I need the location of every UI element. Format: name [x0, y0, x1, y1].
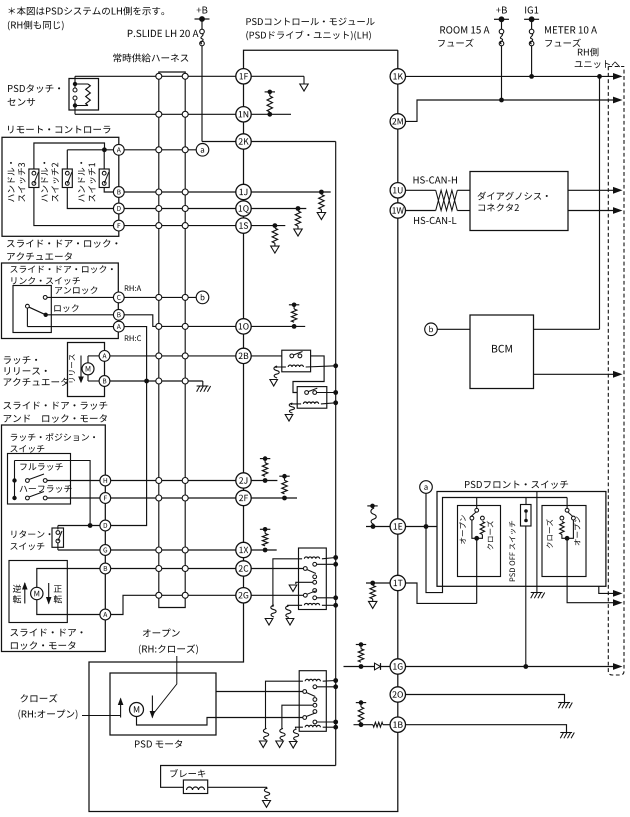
wire switch3 bottom to row F: [34, 188, 114, 226]
relay 1 transistor to ground: [276, 367, 282, 368]
wire close label to motor: [82, 715, 121, 717]
harness bus verticals: [159, 72, 185, 76]
motor relay contact 1: [313, 685, 317, 689]
wire row A link: [27, 326, 113, 328]
wire motor lower to relay: [137, 717, 304, 726]
coil 1 transistor to ground: [271, 605, 276, 617]
wire row G: [58, 549, 100, 551]
label close LH rotated: [487, 521, 494, 550]
motor relay coil1 transistor ground: [263, 729, 268, 741]
module pin 1W: [390, 203, 405, 218]
RH switch contacts: [565, 508, 569, 512]
terminal C RH:A: [113, 292, 124, 303]
lock link switch contacts: [43, 296, 47, 300]
terminal A latch motor: [100, 609, 111, 620]
note text top-left: [9, 7, 165, 16]
dashed box to RH side unit: [608, 67, 624, 676]
terminal A RH:C: [113, 321, 124, 332]
module pin 1E: [390, 519, 405, 534]
module pin 2B: [236, 348, 251, 363]
wire net a routing: [426, 493, 567, 592]
remote controller label: [8, 126, 110, 134]
wire row 1G to RH arrow: [406, 666, 614, 668]
wire row 1B to ground: [406, 725, 567, 732]
lock link switch box: [13, 286, 51, 333]
wire relay1 contact to relay2: [293, 356, 324, 393]
resistor at 1T: [370, 585, 375, 599]
wire switch2 top to row A: [66, 150, 68, 169]
contact middle to ground arrow: [313, 580, 317, 584]
motor open arrow down: [151, 696, 153, 718]
handle switch 2: [62, 169, 72, 188]
label constant supply harness: [113, 53, 188, 62]
return switch: [57, 526, 59, 530]
resistor at 1O: [252, 325, 306, 327]
reverse arrow up: [24, 583, 26, 604]
ground latch release: [202, 381, 204, 386]
net b: [196, 291, 209, 304]
BCM output up: [534, 328, 600, 330]
touch sensor resistor: [75, 83, 88, 85]
module pin 1F: [236, 69, 251, 84]
module pin 1J: [236, 184, 251, 199]
label half latch: [20, 485, 72, 493]
module pin 2M: [390, 114, 405, 129]
module pin 2J: [236, 473, 251, 488]
coil 2 transistor to ground: [286, 606, 291, 618]
BCM output to RH arrow: [534, 373, 615, 375]
label open RH rotated: [574, 517, 581, 546]
module pin 1T: [390, 575, 405, 590]
label open LH rotated: [459, 515, 466, 544]
door lock relay 1 box: [282, 350, 311, 372]
wire 2B to relay: [252, 355, 282, 357]
wire row B to 2C: [111, 568, 236, 570]
motor relay contact 2: [313, 710, 317, 714]
handle switch 2 label: [41, 162, 48, 202]
wire row 1F: [75, 75, 236, 77]
resistor at 1N: [252, 113, 292, 115]
PSD touch sensor: [69, 79, 99, 111]
latch release actuator box: [68, 343, 105, 397]
wire terminal D to link net: [111, 381, 147, 526]
wire row H: [47, 480, 100, 482]
wire terminal A to row 2G: [111, 595, 236, 614]
lock motor M: [31, 587, 43, 599]
resistor at 1X: [252, 549, 277, 551]
wire switch2 bottom to row D: [67, 188, 113, 209]
battery +B terminal top-left: [197, 7, 208, 14]
front switch RH box: [542, 506, 586, 577]
motor relay box: [299, 671, 326, 732]
power relay coil 1: [304, 557, 319, 559]
wire row 1K to RH arrow: [406, 75, 614, 77]
PSD OFF switch box: [521, 505, 532, 527]
wire lock motor to row B: [37, 569, 100, 588]
terminal G: [100, 545, 111, 556]
module pin 1X: [236, 542, 251, 557]
module pin 1B: [390, 717, 405, 732]
PSD motor M: [130, 703, 144, 717]
terminal B lock: [113, 309, 124, 320]
wire row A to net a: [124, 149, 196, 151]
brake coil box: [183, 780, 207, 794]
RH common to RH arrow: [567, 538, 614, 602]
wire row F to 2F: [111, 497, 236, 499]
wire 1T to LH common: [366, 582, 390, 584]
wire row B to 1J: [124, 191, 235, 193]
resistor at 1G: [344, 666, 390, 668]
wire terminal B jog to 1O row: [124, 315, 235, 327]
label forward: [54, 585, 62, 592]
power relay contact 1: [313, 562, 317, 566]
lock motor box: [9, 561, 67, 623]
resistor at 2J: [252, 480, 278, 482]
diode at 1G: [375, 663, 381, 670]
wire +B down to row 2M: [501, 46, 503, 100]
wire latch B to ground: [110, 380, 203, 382]
door lock relay 2 box: [297, 387, 327, 409]
PSD OFF switch to 1G row: [525, 526, 527, 667]
latch position switch box: [8, 454, 71, 505]
motor relay coil 1: [305, 679, 320, 681]
module pin 1S: [236, 218, 251, 233]
front switch box ground: [536, 492, 538, 593]
wire row F latch: [47, 497, 100, 499]
label HS-CAN-H: [414, 176, 458, 183]
front switch box output arrow: [599, 586, 614, 593]
label HS-CAN-L: [414, 217, 456, 224]
relay 2 transistor to ground: [291, 404, 297, 405]
wire row H to 2J: [111, 480, 236, 482]
front switch LH box: [458, 506, 501, 577]
front switch outer box: [437, 492, 606, 587]
terminal F remote: [113, 220, 124, 231]
remote controller box: [2, 137, 119, 236]
wire row 1N: [75, 113, 236, 115]
wire row C unlock: [47, 296, 113, 298]
wire +B feed down to 2K: [201, 46, 203, 142]
wire latch commons: [14, 461, 16, 499]
wire net b to BCM: [437, 328, 470, 330]
LH common down: [476, 538, 478, 603]
PSD motor label: [135, 740, 182, 748]
PSD front switch label: [465, 481, 568, 489]
slide door latch and lock motor box: [2, 425, 106, 652]
wire row 2O to ground: [406, 695, 565, 703]
terminal F latch: [100, 493, 111, 504]
handle switch 3 label: [8, 162, 15, 202]
module pin 2K: [236, 134, 251, 149]
terminal A latch release: [88, 355, 99, 357]
power relay coil 2: [304, 603, 319, 605]
latch position switch label: [11, 433, 95, 441]
full latch switch: [12, 478, 16, 482]
module pin 1O: [236, 319, 251, 334]
relay 1 contact: [290, 354, 294, 358]
relay 1 coil leads: [282, 366, 286, 368]
fuse METER 10A: [531, 19, 533, 29]
internal bus: [335, 142, 337, 766]
forward arrow down: [48, 583, 50, 604]
module pin 2G: [236, 588, 251, 603]
slide door latch and lock motor label: [3, 402, 107, 410]
label lock: [54, 304, 78, 312]
latch release actuator label: [4, 356, 37, 364]
module pin 1N: [236, 107, 251, 122]
wire bus to brake: [161, 766, 336, 788]
wire motor upper to relay: [216, 691, 303, 693]
label reverse: [13, 585, 21, 593]
label PSD OFF switch rotated: [509, 521, 515, 581]
wire switch1 top to row A: [103, 150, 105, 169]
node junction row A: [67, 149, 113, 151]
wire 2K to bus: [252, 141, 336, 143]
wire switch3 top to row A: [34, 143, 105, 169]
wire lock motor to terminal A: [37, 600, 100, 615]
wire switch1 bottom to row B: [104, 188, 113, 193]
label close RH open: [20, 694, 57, 703]
handle switch 1: [99, 169, 109, 188]
fuse P.SLIDE LH 20A: [201, 19, 203, 29]
wire row C to net b: [124, 296, 196, 298]
module pin 1Q: [236, 201, 251, 216]
PSD touch sensor label: [8, 84, 60, 93]
motor relay middle contact to transistor: [313, 703, 317, 707]
leader line open label: [154, 656, 177, 714]
label open RH close: [143, 629, 180, 637]
terminal B latch release: [88, 380, 99, 382]
power relay box: [299, 548, 327, 610]
net b at BCM: [425, 323, 438, 336]
slide door lock actuator label: [7, 239, 118, 248]
terminal D latch: [100, 520, 111, 531]
fuse ROOM 15A: [501, 19, 503, 29]
label to RH unit: [578, 48, 599, 57]
module pin 1G: [390, 659, 405, 674]
label release rotated: [69, 354, 75, 382]
module outline PSD control module: [244, 50, 398, 76]
module pin 2F: [236, 490, 251, 505]
net a front switch: [420, 481, 433, 494]
wire IG1 down to 1K row: [531, 46, 533, 77]
relay 2 contact: [305, 391, 309, 395]
RH switch resistor: [560, 522, 564, 535]
relay 2 coil: [303, 402, 318, 404]
motor close arrow up: [120, 699, 122, 718]
terminal A remote: [113, 144, 124, 155]
ignition IG1 terminal: [525, 6, 538, 13]
motor relay coil 2: [305, 725, 320, 727]
series resistor 1B: [373, 722, 383, 727]
PSD motor box: [110, 673, 216, 735]
label full latch: [20, 463, 62, 471]
LH switch contacts: [475, 508, 479, 512]
module pin 1K: [390, 69, 405, 84]
resistor at 2F: [252, 497, 298, 499]
latch release motor M: [87, 356, 89, 381]
wire row F to 1S: [124, 225, 235, 227]
half latch switch: [12, 496, 16, 500]
wire 2C row to relay: [252, 568, 304, 570]
net a: [196, 144, 209, 157]
battery +B terminal top-right: [496, 7, 507, 14]
resistor at 1B: [354, 724, 373, 726]
motor relay coil2 transistor ground: [293, 729, 298, 741]
wire row G to 1X: [111, 549, 236, 551]
handle switch 3: [29, 169, 39, 188]
diagnosis connector 2 box: [470, 172, 568, 231]
brake label: [170, 769, 205, 777]
label unlock: [55, 286, 97, 294]
wire brake to transistor ground: [208, 787, 267, 789]
arrow from 1F: [252, 75, 305, 77]
slide door lock motor label: [10, 629, 82, 637]
release direction arrow: [80, 356, 82, 382]
terminal B remote: [113, 187, 124, 198]
terminal B latch motor: [100, 563, 111, 574]
resistor at 1Q: [252, 208, 307, 210]
CAN twisted pair resistors: [406, 189, 436, 191]
handle switch 1 label: [78, 162, 85, 202]
resistor at 1E: [366, 526, 390, 528]
diagnosis outputs to RH arrows: [568, 189, 614, 191]
wire terminal A down to latch row: [124, 327, 146, 381]
resistor at 1J: [252, 191, 331, 193]
wire row 2B from latch A: [110, 355, 236, 357]
module label: [246, 18, 374, 26]
LH switch resistor: [480, 522, 484, 535]
module pin 1U: [390, 183, 405, 198]
return switch label: [11, 530, 50, 538]
wire row 2M to RH arrow: [406, 100, 614, 121]
wire row B lock: [46, 314, 114, 316]
terminal H: [100, 475, 111, 486]
module pin 2C: [236, 561, 251, 576]
terminal D remote: [113, 203, 124, 214]
resistor at 1S: [252, 225, 286, 227]
module pin 2O: [390, 687, 405, 702]
BCM box: [470, 315, 534, 389]
label close RH rotated: [546, 519, 553, 548]
slide door lock actuator box: [2, 263, 119, 339]
wire row D return switch: [58, 525, 100, 527]
wire 2G row to relay: [252, 594, 304, 596]
power relay contact 2: [313, 589, 317, 593]
wire row D to 1Q: [124, 208, 235, 210]
wire row 1E to front switch: [406, 526, 437, 528]
vertical wire BCM to 1K row: [599, 76, 601, 329]
relay 1 coil: [288, 365, 303, 367]
